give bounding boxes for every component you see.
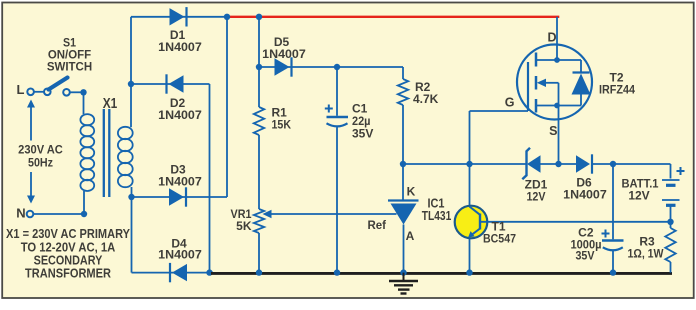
svg-text:SWITCH: SWITCH <box>47 60 92 74</box>
svg-text:1N4007: 1N4007 <box>262 47 306 61</box>
svg-text:A: A <box>406 229 415 243</box>
svg-text:50Hz: 50Hz <box>28 156 53 170</box>
svg-text:1N4007: 1N4007 <box>158 40 202 54</box>
svg-text:1Ω, 1W: 1Ω, 1W <box>628 247 665 261</box>
svg-text:TRANSFORMER: TRANSFORMER <box>25 267 111 281</box>
svg-text:35V: 35V <box>352 127 373 141</box>
svg-text:G: G <box>505 96 515 110</box>
svg-text:230V AC: 230V AC <box>18 143 63 157</box>
svg-text:K: K <box>407 185 416 199</box>
svg-text:12V: 12V <box>527 190 546 204</box>
svg-text:35V: 35V <box>576 249 595 263</box>
svg-text:N: N <box>16 206 25 221</box>
svg-text:Ref: Ref <box>368 218 387 232</box>
svg-text:X1: X1 <box>103 95 118 112</box>
svg-text:5K: 5K <box>236 219 252 233</box>
svg-text:S: S <box>549 124 557 138</box>
svg-text:1N4007: 1N4007 <box>158 108 202 122</box>
svg-text:BC547: BC547 <box>483 232 516 246</box>
svg-text:12V: 12V <box>628 189 649 203</box>
svg-text:X1 = 230V AC PRIMARY: X1 = 230V AC PRIMARY <box>6 227 131 241</box>
svg-text:1N4007: 1N4007 <box>158 248 202 262</box>
svg-text:4.7K: 4.7K <box>413 92 439 106</box>
svg-text:D: D <box>547 31 556 45</box>
svg-text:IRFZ44: IRFZ44 <box>599 83 635 97</box>
svg-text:TO 12-20V AC, 1A: TO 12-20V AC, 1A <box>21 241 116 255</box>
svg-text:15K: 15K <box>272 118 292 132</box>
svg-text:TL431: TL431 <box>422 209 452 223</box>
svg-text:SECONDARY: SECONDARY <box>34 254 103 268</box>
svg-text:1N4007: 1N4007 <box>158 175 202 189</box>
svg-text:L: L <box>17 82 25 97</box>
svg-text:1N4007: 1N4007 <box>563 188 607 202</box>
